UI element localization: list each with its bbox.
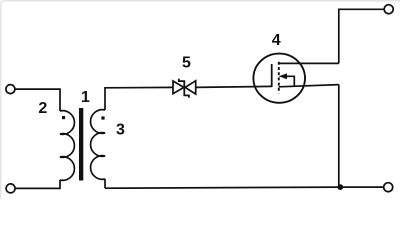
wire diode to mosfet gate (196, 86, 272, 87)
svg-text:2: 2 (38, 100, 47, 117)
channel (dashed) (278, 62, 280, 93)
terminal P1 (upper left) (6, 85, 15, 94)
wire P2 to winding 2 bottom (15, 180, 60, 188)
body arrow head (279, 73, 287, 79)
drain lead (279, 62, 339, 64)
wire winding 3 top to diode (105, 87, 173, 110)
wire source down to junction (338, 85, 340, 188)
source lead (279, 85, 339, 87)
terminal P4 (lower right) (384, 183, 393, 192)
polarity dot winding 3 (101, 116, 104, 119)
wire junction to terminal P4 (340, 186, 383, 188)
winding 2 (primary) (60, 111, 74, 181)
terminal P3 (upper right) (384, 5, 393, 14)
svg-text:5: 5 (182, 55, 191, 72)
wire P1 to winding 2 top (15, 89, 60, 111)
svg-text:1: 1 (81, 89, 90, 106)
diode 5 stepped bar (179, 79, 189, 98)
polarity dot winding 2 (62, 116, 65, 119)
svg-text:3: 3 (116, 122, 125, 139)
core 1 (79, 108, 83, 181)
wire winding 3 bottom to rail (104, 179, 106, 188)
svg-text:4: 4 (272, 32, 281, 49)
terminal P2 (lower left) (6, 184, 15, 193)
diode 5 left triangle (173, 81, 184, 94)
mosfet 4 body circle (253, 54, 305, 103)
winding 3 (secondary) (91, 110, 105, 180)
bottom rail wire (105, 187, 340, 188)
gate electrode (271, 64, 273, 87)
body arrow line (285, 76, 294, 86)
diode 5 right triangle (185, 81, 196, 94)
wire drain to top terminal (339, 9, 384, 63)
junction dot (337, 184, 343, 190)
